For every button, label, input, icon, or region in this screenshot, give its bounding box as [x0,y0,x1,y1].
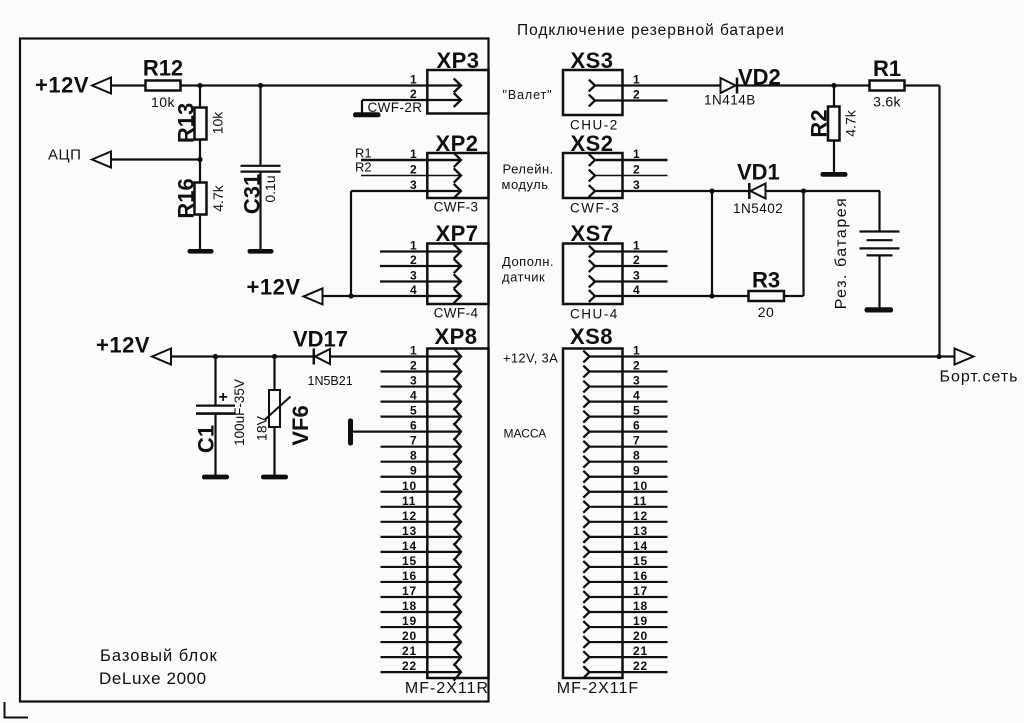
svg-text:R16: R16 [174,178,199,218]
svg-text:10k: 10k [210,111,226,135]
svg-text:9: 9 [410,464,417,478]
svg-text:"Валет": "Валет" [503,88,553,102]
svg-text:2: 2 [633,359,640,373]
svg-text:4: 4 [410,283,417,297]
svg-text:4: 4 [633,283,640,297]
svg-text:Борт.сеть: Борт.сеть [940,369,1019,386]
svg-text:АЦП: АЦП [48,147,81,164]
svg-text:100uF-35V: 100uF-35V [232,379,247,446]
svg-text:14: 14 [402,539,417,553]
svg-text:VD1: VD1 [737,160,780,185]
svg-text:12: 12 [402,509,417,523]
svg-text:5: 5 [633,404,640,418]
svg-text:XS2: XS2 [570,131,613,156]
svg-text:4.7k: 4.7k [210,184,226,211]
svg-text:8: 8 [410,449,417,463]
svg-text:15: 15 [402,554,417,568]
svg-text:15: 15 [633,554,648,568]
svg-text:2: 2 [633,88,640,102]
svg-text:VD17: VD17 [293,327,348,352]
svg-text:+12V, 3A: +12V, 3A [503,351,558,366]
svg-text:CWF-2R: CWF-2R [368,100,423,115]
svg-text:4.7k: 4.7k [843,109,859,136]
svg-text:20: 20 [633,629,648,643]
svg-text:18V: 18V [254,415,270,441]
svg-text:Базовый блок: Базовый блок [100,647,218,665]
svg-text:13: 13 [633,524,648,538]
svg-text:10: 10 [402,479,417,493]
svg-text:22: 22 [633,659,648,673]
svg-text:2: 2 [633,253,640,267]
svg-text:3: 3 [410,374,417,388]
svg-text:18: 18 [633,599,648,613]
svg-text:датчик: датчик [502,270,545,285]
svg-text:Рез. батарея: Рез. батарея [833,197,850,310]
svg-text:Подключение резервной батареи: Подключение резервной батареи [517,22,785,39]
svg-text:R13: R13 [174,103,199,143]
svg-text:17: 17 [633,584,648,598]
svg-text:XS8: XS8 [570,324,613,349]
svg-text:3.6k: 3.6k [873,94,901,110]
svg-text:5: 5 [410,404,417,418]
svg-text:МАССА: МАССА [504,427,547,441]
svg-text:9: 9 [633,464,640,478]
svg-text:18: 18 [402,599,417,613]
svg-text:R1: R1 [873,56,901,81]
svg-text:21: 21 [402,644,417,658]
svg-text:4: 4 [633,389,640,403]
svg-text:10k: 10k [151,94,176,110]
svg-text:16: 16 [633,569,648,583]
svg-text:3: 3 [410,178,417,192]
svg-text:DeLuxe 2000: DeLuxe 2000 [99,669,207,688]
svg-text:1N414B: 1N414B [704,93,756,108]
svg-text:8: 8 [633,449,640,463]
svg-text:XP7: XP7 [435,221,478,246]
svg-text:1N5402: 1N5402 [733,201,783,216]
svg-text:1: 1 [410,344,417,358]
svg-text:19: 19 [633,614,648,628]
svg-text:C1: C1 [194,425,219,453]
svg-text:+: + [219,389,228,406]
svg-text:1N5B21: 1N5B21 [308,374,353,388]
svg-text:3: 3 [633,374,640,388]
svg-text:1: 1 [633,147,640,161]
svg-text:4: 4 [410,389,417,403]
svg-text:19: 19 [402,614,417,628]
svg-text:2: 2 [410,253,417,267]
svg-text:1: 1 [633,344,640,358]
svg-text:XP8: XP8 [434,324,477,349]
svg-text:R2: R2 [807,109,832,137]
svg-text:6: 6 [633,419,640,433]
svg-text:1: 1 [410,239,417,253]
svg-text:20: 20 [758,304,775,320]
svg-text:16: 16 [402,569,417,583]
svg-text:R12: R12 [143,56,183,81]
svg-text:20: 20 [402,629,417,643]
svg-text:R3: R3 [752,268,780,293]
svg-text:+12V: +12V [247,275,301,300]
svg-text:11: 11 [633,494,647,508]
svg-text:17: 17 [402,584,417,598]
svg-text:2: 2 [410,359,417,373]
svg-text:1: 1 [633,239,640,253]
svg-text:R1: R1 [355,146,372,161]
svg-text:CWF-4: CWF-4 [434,306,479,321]
svg-text:7: 7 [633,434,640,448]
svg-text:Дополн.: Дополн. [502,254,554,269]
svg-text:22: 22 [402,659,417,673]
svg-text:CHU-4: CHU-4 [570,307,619,322]
svg-text:MF-2X11F: MF-2X11F [557,680,639,697]
svg-text:1: 1 [410,147,417,161]
svg-text:XS3: XS3 [570,48,613,73]
svg-text:10: 10 [633,479,648,493]
svg-text:MF-2X11R: MF-2X11R [405,680,489,697]
svg-text:3: 3 [410,269,417,283]
svg-text:14: 14 [633,539,648,553]
svg-text:2: 2 [410,87,417,101]
svg-text:XP3: XP3 [436,48,479,73]
svg-text:CWF-3: CWF-3 [434,200,479,215]
svg-text:3: 3 [633,178,640,192]
svg-text:XS7: XS7 [570,221,613,246]
svg-text:3: 3 [633,269,640,283]
svg-text:21: 21 [633,644,648,658]
svg-text:VF6: VF6 [288,405,313,445]
svg-text:+12V: +12V [35,73,89,98]
svg-text:+12V: +12V [96,333,150,358]
svg-text:2: 2 [410,163,417,177]
svg-text:1: 1 [633,73,640,87]
svg-text:модуль: модуль [502,177,549,192]
svg-text:R2: R2 [355,160,372,175]
svg-text:C31: C31 [240,174,265,214]
svg-text:1: 1 [410,73,417,87]
svg-text:11: 11 [402,494,416,508]
svg-text:CWF-3: CWF-3 [570,201,620,216]
svg-text:XP2: XP2 [435,131,478,156]
svg-text:0.1u: 0.1u [262,175,278,202]
svg-text:2: 2 [633,163,640,177]
svg-text:6: 6 [410,419,417,433]
svg-text:7: 7 [410,434,417,448]
svg-text:13: 13 [402,524,417,538]
svg-text:12: 12 [633,509,648,523]
svg-text:Релейн.: Релейн. [503,162,554,177]
